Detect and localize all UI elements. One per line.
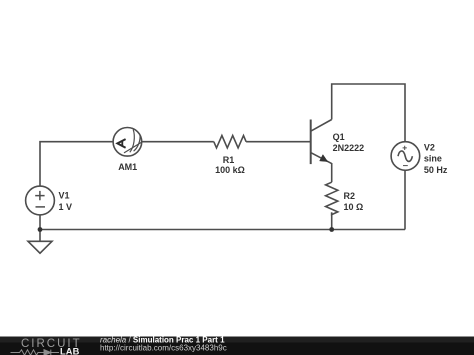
voltage source V1 [26,186,55,215]
node junction at R2 / bottom rail [329,227,334,232]
label V1 1 V [59,191,73,212]
resistor R1 [214,136,246,148]
wire AM1 to R1 [142,141,214,143]
wire Q1 collector to top rail to V2 [332,84,405,142]
label R1 100 kΩ [215,155,245,175]
svg-text:V1: V1 [59,191,70,201]
logo circuit glyph wire resistor diode [11,350,60,355]
footer bar [0,337,474,355]
svg-text:2N2222: 2N2222 [333,143,365,153]
svg-text:100 kΩ: 100 kΩ [215,165,245,175]
svg-text:sine: sine [424,154,442,164]
label V2 sine 50 Hz [424,142,448,175]
svg-text:1 V: 1 V [59,202,73,212]
svg-text:10 Ω: 10 Ω [344,202,364,212]
svg-text:Q1: Q1 [333,132,345,142]
wire R2 to bottom rail [331,212,333,229]
wire R1 to Q1 base [246,141,311,143]
voltage source V2 [391,142,420,171]
resistor R2 [326,182,338,214]
svg-text:R1: R1 [223,155,235,165]
svg-text:AM1: AM1 [118,162,137,172]
svg-text:50 Hz: 50 Hz [424,165,448,175]
wire V2 bottom to bottom rail [404,170,406,229]
wire V1 bottom to ground [39,215,41,242]
transistor Q1 [311,120,332,165]
wire V1 top to main rail [40,142,113,187]
label Q1 2N2222 [333,132,365,153]
label R2 10 Ω [344,191,364,212]
ammeter AM1 [113,128,142,157]
wire bottom rail [40,229,405,231]
node junction at V1 / bottom rail [38,227,43,232]
svg-text:R2: R2 [344,191,356,201]
ground [28,241,52,253]
svg-text:http://circuitlab.com/cs63xy34: http://circuitlab.com/cs63xy3483h9c [100,343,227,352]
svg-text:LAB: LAB [60,347,80,355]
svg-text:V2: V2 [424,142,435,152]
wire Q1 emitter to R2 [331,163,333,182]
